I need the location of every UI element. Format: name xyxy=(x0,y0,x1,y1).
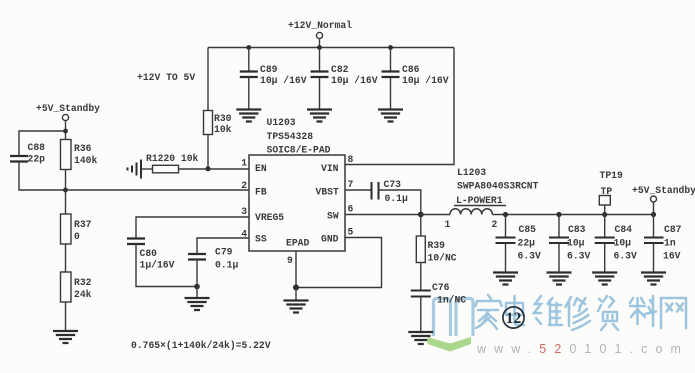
svg-text:9: 9 xyxy=(287,255,293,266)
green ribbon xyxy=(428,337,472,352)
svg-text:2: 2 xyxy=(241,180,247,191)
svg-text:R1220 10k: R1220 10k xyxy=(146,153,199,164)
capacitor C86 xyxy=(390,48,392,72)
ground (left divider) xyxy=(53,331,78,343)
junction +12V tap xyxy=(317,45,322,50)
ground (C84) xyxy=(592,273,617,285)
wire EPAD down xyxy=(295,251,297,288)
ground (C87) xyxy=(641,273,666,285)
svg-text:10μ /16V: 10μ /16V xyxy=(260,75,307,86)
wire R39 to C76 xyxy=(420,263,422,291)
svg-text:5: 5 xyxy=(348,227,354,238)
svg-text:3: 3 xyxy=(241,206,247,217)
ground (C86) xyxy=(378,110,403,122)
svg-text:16V: 16V xyxy=(663,251,681,262)
wire SW to L xyxy=(421,214,450,216)
svg-text:140k: 140k xyxy=(74,155,97,166)
wire C88 bottom xyxy=(19,162,66,191)
svg-text:TPS54328: TPS54328 xyxy=(267,131,314,142)
junction C83 xyxy=(556,212,561,217)
svg-text:22μ: 22μ xyxy=(518,238,536,249)
svg-text:6.3V: 6.3V xyxy=(518,251,541,262)
svg-text:+12V_Normal: +12V_Normal xyxy=(288,20,352,31)
char 电 xyxy=(506,296,524,325)
junction C80/C79 xyxy=(194,284,200,290)
wire C73 to SW node xyxy=(379,190,421,215)
char 网 xyxy=(661,298,686,328)
svg-text:R32: R32 xyxy=(74,277,92,288)
svg-text:C86: C86 xyxy=(402,64,420,75)
op-amp U1203 body xyxy=(249,155,345,251)
svg-text:0.1μ: 0.1μ xyxy=(385,193,408,204)
svg-text:7: 7 xyxy=(348,179,354,190)
capacitor C87 xyxy=(653,215,655,238)
svg-text:VREG5: VREG5 xyxy=(255,212,284,223)
ground (C82) xyxy=(307,110,332,122)
char 修 xyxy=(566,297,591,330)
svg-text:0.1μ: 0.1μ xyxy=(215,260,238,271)
junction EPAD/GND xyxy=(293,285,299,291)
svg-text:C89: C89 xyxy=(260,64,278,75)
wire SW to R39 xyxy=(420,215,422,237)
svg-text:12: 12 xyxy=(506,310,522,327)
char 家 xyxy=(476,295,502,329)
svg-text:2: 2 xyxy=(492,219,498,230)
junction C84 xyxy=(602,212,607,217)
svg-text:C83: C83 xyxy=(568,224,586,235)
wire to C88 xyxy=(19,131,66,156)
wire terminal to junction xyxy=(65,121,67,131)
junction C89 tap xyxy=(246,45,251,50)
resistor R39 xyxy=(416,236,425,263)
capacitor C88 xyxy=(10,156,28,162)
svg-text:1n: 1n xyxy=(664,238,676,249)
svg-text:10/NC: 10/NC xyxy=(428,253,457,264)
ground (C83) xyxy=(547,273,572,285)
capacitor C80 xyxy=(127,239,145,245)
svg-text:0: 0 xyxy=(74,231,80,242)
ground (C85) xyxy=(493,273,518,285)
resistor R37 xyxy=(61,214,72,244)
wire R1220 to EN xyxy=(179,168,250,170)
book icon right page xyxy=(456,299,473,337)
char 资 xyxy=(598,296,618,330)
svg-text:L-POWER1: L-POWER1 xyxy=(456,195,503,206)
svg-text:FB: FB xyxy=(255,187,267,198)
ground (C89) xyxy=(236,110,261,122)
svg-text:1n/NC: 1n/NC xyxy=(437,295,466,306)
svg-text:VBST: VBST xyxy=(316,187,339,198)
svg-text:C87: C87 xyxy=(664,224,682,235)
svg-text:1: 1 xyxy=(241,158,247,169)
wire R37 to R32 xyxy=(65,244,67,272)
svg-text:22p: 22p xyxy=(28,154,46,165)
svg-text:SWPA8040S3RCNT: SWPA8040S3RCNT xyxy=(457,181,539,192)
svg-text:10μ /16V: 10μ /16V xyxy=(331,75,378,86)
svg-text:GND: GND xyxy=(321,234,339,245)
junction C86 tap xyxy=(388,45,393,50)
svg-text:C80: C80 xyxy=(140,248,158,259)
svg-text:+12V TO 5V: +12V TO 5V xyxy=(137,72,195,83)
svg-text:6.3V: 6.3V xyxy=(614,251,637,262)
ground (C76) xyxy=(408,332,433,344)
wire SW xyxy=(345,214,421,216)
svg-text:R36: R36 xyxy=(74,143,92,154)
svg-text:www.520101.com: www.520101.com xyxy=(476,342,689,356)
node FB junction xyxy=(63,188,68,193)
svg-text:C73: C73 xyxy=(384,179,402,190)
wire R30 bottom xyxy=(207,135,209,169)
svg-text:10μ: 10μ xyxy=(614,238,632,249)
svg-text:10μ /16V: 10μ /16V xyxy=(402,75,449,86)
wire gnd to R1220 xyxy=(141,168,153,170)
svg-text:R30: R30 xyxy=(214,113,232,124)
wire VREG5 xyxy=(136,217,249,239)
svg-text:0.765×(1+140k/24k)=5.22V: 0.765×(1+140k/24k)=5.22V xyxy=(131,340,271,351)
wire R37 top xyxy=(65,190,67,214)
inductor L1203 xyxy=(450,209,492,215)
wire FB net xyxy=(66,189,250,191)
test point TP19 xyxy=(599,196,610,206)
capacitor C83 xyxy=(558,215,560,238)
svg-text:SOIC8/E-PAD: SOIC8/E-PAD xyxy=(267,145,331,156)
wire R36 top xyxy=(65,131,67,140)
ground (EPAD) xyxy=(284,301,309,313)
svg-text:1: 1 xyxy=(445,219,451,230)
wire C76 bottom xyxy=(420,297,422,333)
svg-text:R37: R37 xyxy=(74,219,92,230)
svg-text:R39: R39 xyxy=(428,240,446,251)
svg-text:24k: 24k xyxy=(74,289,92,300)
wire VBST to C73 xyxy=(345,189,372,191)
svg-text:VIN: VIN xyxy=(321,163,339,174)
watermark group (drawn first, schematic ink on top) xyxy=(428,295,690,356)
capacitor C76 xyxy=(411,291,431,297)
char 维 xyxy=(534,296,562,325)
svg-text:U1203: U1203 xyxy=(267,117,296,128)
svg-text:C82: C82 xyxy=(331,64,349,75)
capacitor C73 xyxy=(372,182,379,200)
ground (C79/C80) xyxy=(185,298,210,310)
svg-text:C79: C79 xyxy=(215,247,233,258)
svg-text:SW: SW xyxy=(327,211,339,222)
capacitor C89 xyxy=(248,48,250,72)
wire GND pin loop xyxy=(296,238,382,288)
capacitor C82 xyxy=(319,48,321,72)
svg-text:6: 6 xyxy=(348,204,354,215)
capacitor C85 xyxy=(505,215,507,238)
svg-text:C76: C76 xyxy=(432,282,450,293)
svg-text:L1203: L1203 xyxy=(457,167,486,178)
wire C79 bottom xyxy=(196,260,198,287)
svg-text:6.3V: 6.3V xyxy=(567,251,590,262)
svg-text:SS: SS xyxy=(255,234,267,245)
wire +12V rail xyxy=(208,47,454,49)
svg-text:+5V_Standby: +5V_Standby xyxy=(632,185,695,196)
wire R32 bottom xyxy=(65,302,67,331)
wire to ground xyxy=(196,287,198,299)
junction C85 xyxy=(503,212,508,217)
wire rail down to VIN xyxy=(345,48,454,165)
wire rail to R30 xyxy=(207,48,209,111)
svg-text:TP19: TP19 xyxy=(600,170,623,181)
wire terminal drop xyxy=(319,39,321,48)
resistor R30 xyxy=(204,111,213,135)
svg-text:10μ: 10μ xyxy=(567,238,585,249)
capacitor C79 xyxy=(188,254,206,260)
svg-text:C85: C85 xyxy=(519,224,537,235)
resistor R36 xyxy=(61,140,72,170)
circled 12 stamp xyxy=(503,307,524,328)
wire R36 bottom xyxy=(65,170,67,191)
svg-text:C84: C84 xyxy=(615,224,633,235)
svg-text:10k: 10k xyxy=(214,124,232,135)
wire SS xyxy=(197,238,249,254)
svg-text:1μ/16V: 1μ/16V xyxy=(140,260,175,271)
wire C80 bottom xyxy=(136,244,197,287)
junction xyxy=(63,129,68,134)
svg-text:8: 8 xyxy=(348,154,354,165)
wire to ground xyxy=(295,288,297,301)
svg-text:EPAD: EPAD xyxy=(286,238,309,249)
svg-text:EN: EN xyxy=(255,163,267,174)
book icon left page xyxy=(434,299,451,337)
ground (R1220 left, sideways) xyxy=(128,160,142,179)
svg-text:C88: C88 xyxy=(28,142,46,153)
resistor R32 xyxy=(61,272,72,302)
resistor R1220 xyxy=(153,165,179,173)
svg-text:+5V_Standby: +5V_Standby xyxy=(36,103,100,114)
junction SW xyxy=(418,212,424,218)
capacitor C84 xyxy=(604,215,606,238)
char 料 xyxy=(630,296,656,326)
wire L to output rail xyxy=(492,214,653,216)
junction C87 xyxy=(651,212,656,217)
junction R30/EN xyxy=(206,166,211,171)
